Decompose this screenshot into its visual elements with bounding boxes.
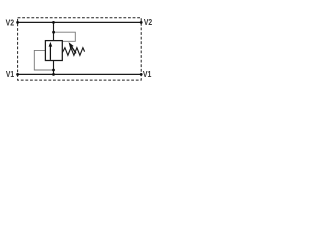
svg-text:V2: V2	[144, 17, 153, 27]
svg-text:V1: V1	[143, 69, 152, 79]
svg-text:V1: V1	[6, 69, 14, 79]
svg-text:V2: V2	[6, 18, 15, 28]
